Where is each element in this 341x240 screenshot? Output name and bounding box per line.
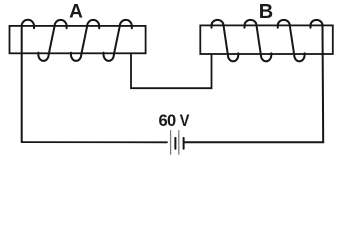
battery cell long plate 2 [178, 131, 180, 155]
coil A winding: left lead + turn 1 top arc [22, 20, 34, 142]
coil B winding turn 3: top arc + diagonal + bottom U [278, 20, 305, 61]
battery cell long plate 1 [170, 131, 172, 155]
coil A right lead + connector wire + coil B left lead [131, 53, 212, 88]
coil B winding turn 1: top arc + diagonal + bottom U [212, 20, 239, 61]
battery cell short plate 2 [183, 138, 185, 149]
battery cell short plate 1 [174, 138, 176, 149]
coil A winding turn 2: bottom U + diagonal + top arc [38, 20, 66, 61]
coil A winding turn 4: bottom U + diagonal + top arc [104, 20, 132, 61]
coil B core (rectangle) [200, 25, 332, 54]
svg-text:V: V [180, 112, 190, 130]
coil B winding turn 2: top arc + diagonal + bottom U [245, 20, 272, 61]
coil B winding turn 4: top arc + right lead down to rail corner + right rail [184, 20, 323, 142]
svg-text:B: B [259, 1, 273, 23]
svg-text:60: 60 [159, 112, 176, 130]
coil A winding turn 3: bottom U + diagonal + top arc [71, 20, 99, 61]
coil A core (rectangle) [10, 26, 146, 53]
svg-text:A: A [69, 2, 83, 23]
bottom rail: left section from coil A lead to battery [22, 141, 167, 143]
